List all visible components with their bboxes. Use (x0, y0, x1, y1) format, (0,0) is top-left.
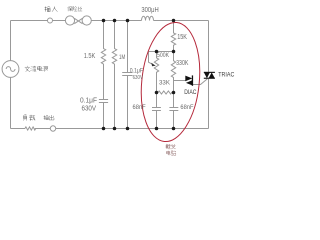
svg-text:330K: 330K (176, 60, 189, 67)
svg-text:1.5K: 1.5K (84, 53, 96, 60)
svg-text:68nF: 68nF (133, 104, 146, 111)
svg-text:TRIAC: TRIAC (218, 71, 234, 78)
svg-text:1M: 1M (119, 54, 125, 61)
svg-text:15K: 15K (177, 34, 187, 41)
svg-text:300μH: 300μH (141, 7, 158, 14)
svg-text:0.1μF: 0.1μF (80, 98, 97, 105)
svg-text:0.1μF: 0.1μF (130, 68, 143, 75)
svg-text:DIAC: DIAC (184, 89, 196, 96)
svg-text:33K: 33K (159, 80, 171, 87)
svg-text:500K: 500K (157, 52, 170, 59)
svg-text:68nF: 68nF (180, 104, 193, 111)
svg-text:630V: 630V (82, 105, 97, 112)
svg-text:630V: 630V (133, 75, 143, 81)
